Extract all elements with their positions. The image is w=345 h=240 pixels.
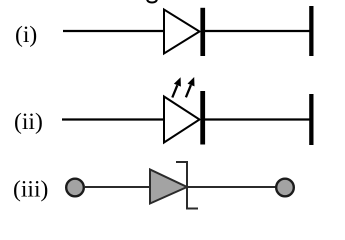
svg-text:(i): (i)	[15, 22, 37, 48]
svg-text:(ii): (ii)	[14, 109, 43, 135]
svg-text:(iii): (iii)	[13, 176, 48, 202]
